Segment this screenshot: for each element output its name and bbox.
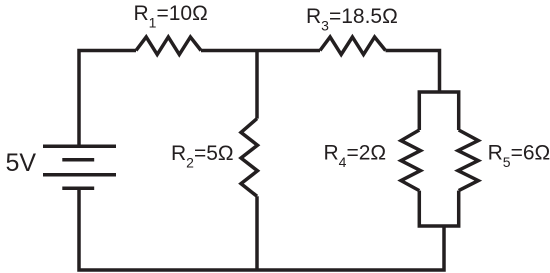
wire top-left corner (battery + to R1) — [79, 51, 136, 148]
resistor R5 — [458, 130, 478, 191]
svg-text:R5=6Ω: R5=6Ω — [488, 141, 550, 170]
node A — [255, 51, 259, 119]
wire parallel bank bottom bar — [419, 191, 458, 226]
battery V1 plate short upper — [62, 158, 94, 162]
resistor R1 — [136, 37, 201, 55]
resistor R4 — [401, 130, 421, 191]
wire parallel bank top bar — [419, 92, 458, 130]
wire R1 to R3 through node A — [201, 49, 320, 53]
svg-text:R2=5Ω: R2=5Ω — [171, 142, 234, 171]
svg-text:5V: 5V — [6, 149, 37, 177]
wire R2 bottom lead — [255, 196, 259, 270]
svg-text:R3=18.5Ω: R3=18.5Ω — [306, 5, 398, 34]
svg-text:R1=10Ω: R1=10Ω — [134, 2, 208, 31]
svg-text:R4=2Ω: R4=2Ω — [324, 141, 387, 170]
battery V1 plate long top — [43, 145, 116, 149]
battery V1 plate long lower — [43, 173, 116, 177]
wire top-right corner (R3 to parallel bank feed) — [386, 51, 440, 94]
battery V1 plate short bottom — [62, 187, 94, 191]
resistor R3 — [320, 37, 386, 55]
wire bottom return (bank output, bottom rail, battery -) — [79, 188, 444, 270]
resistor R2 — [241, 119, 258, 197]
